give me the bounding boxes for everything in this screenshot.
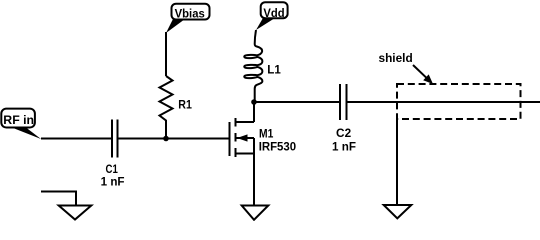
svg-text:RF in: RF in — [3, 113, 34, 127]
svg-text:M1: M1 — [259, 126, 273, 140]
svg-text:1 nF: 1 nF — [101, 175, 125, 189]
svg-text:IRF530: IRF530 — [259, 140, 297, 154]
svg-text:Vbias: Vbias — [175, 7, 205, 21]
svg-text:Vdd: Vdd — [263, 6, 284, 20]
svg-text:1 nF: 1 nF — [332, 140, 356, 154]
svg-text:shield: shield — [379, 51, 413, 65]
svg-text:L1: L1 — [267, 63, 281, 77]
svg-text:C2: C2 — [336, 126, 351, 140]
svg-text:R1: R1 — [178, 98, 192, 112]
